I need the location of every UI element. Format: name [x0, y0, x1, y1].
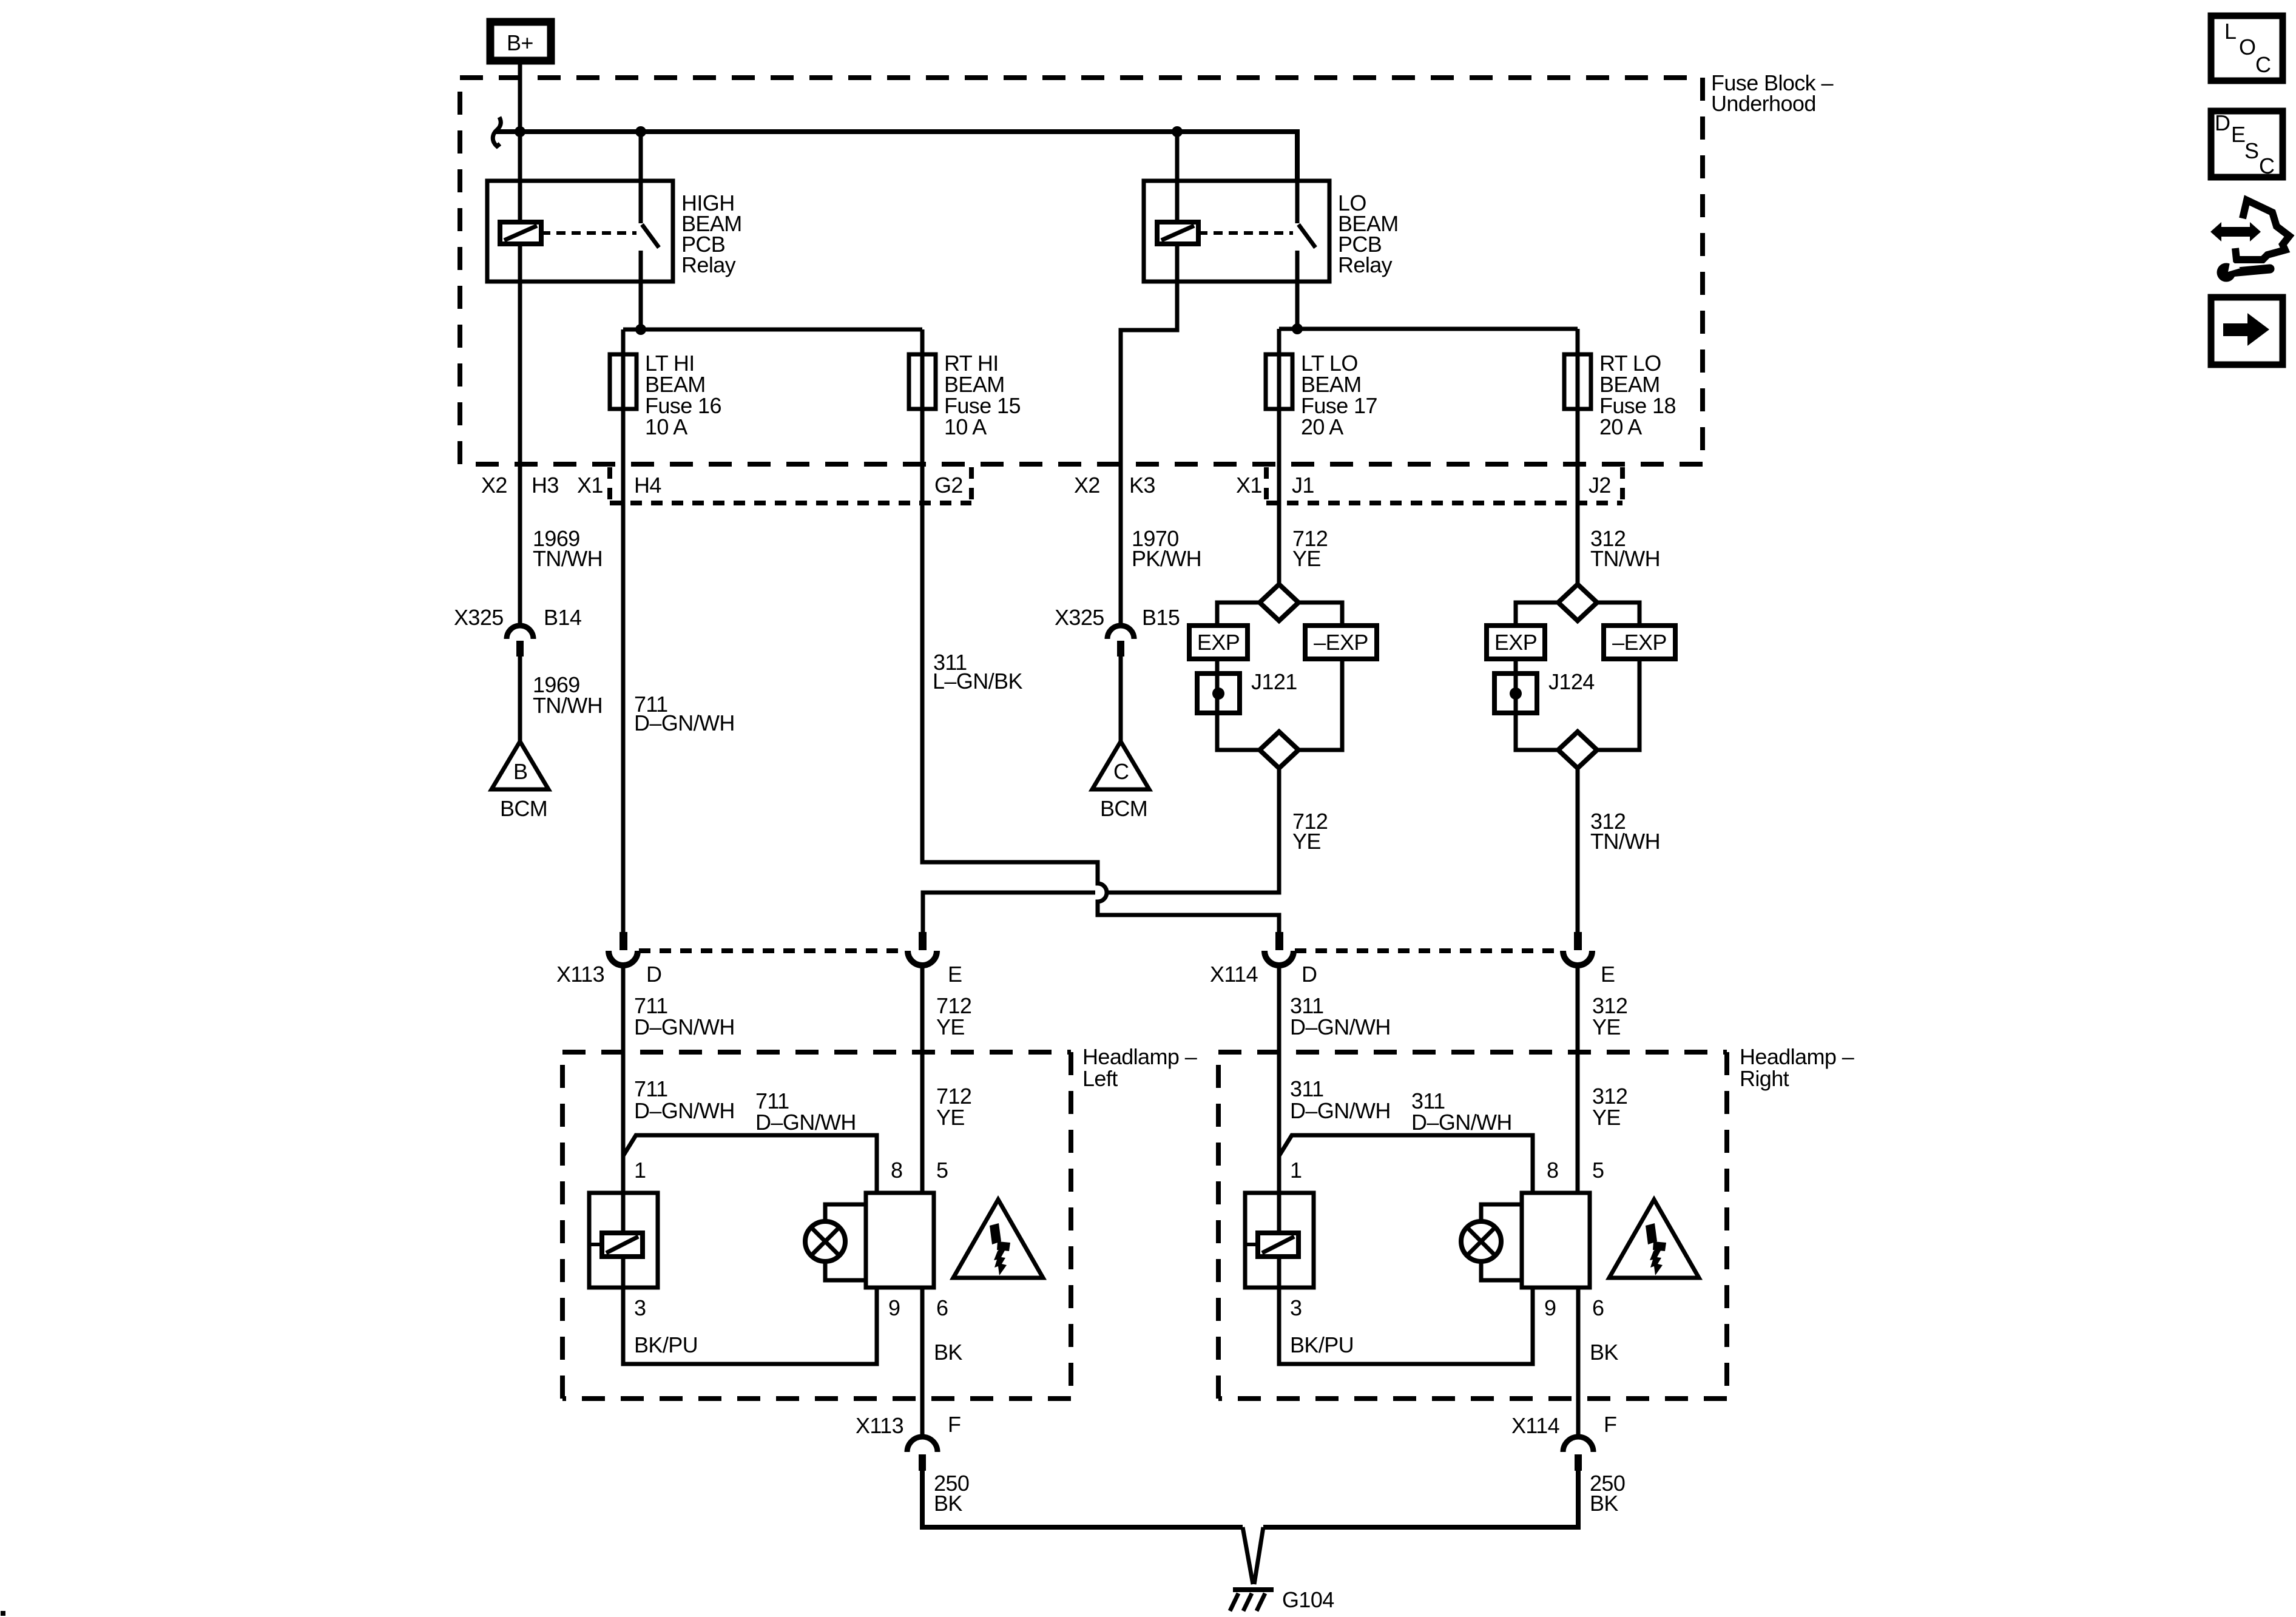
- connector X114 pin F: [1511, 1412, 1616, 1471]
- svg-text:10 A: 10 A: [645, 414, 687, 439]
- node triangle C BCM: [1092, 741, 1149, 821]
- svg-text:TN/WH: TN/WH: [1590, 829, 1660, 854]
- wire 1969 high beam relay coil return to X325: [518, 282, 522, 626]
- warning triangle high voltage left: [953, 1200, 1043, 1278]
- svg-text:D–GN/WH: D–GN/WH: [1290, 1098, 1391, 1123]
- label Headlamp - Right: [1740, 1044, 1854, 1091]
- icon next page arrow box: [2211, 297, 2283, 365]
- svg-text:5: 5: [1592, 1158, 1604, 1183]
- svg-text:D–GN/WH: D–GN/WH: [634, 1098, 735, 1123]
- fuse LT HI BEAM Fuse 16: [610, 354, 636, 409]
- svg-text:20 A: 20 A: [1599, 414, 1642, 439]
- svg-text:YE: YE: [1592, 1014, 1621, 1039]
- node junction dot at high beam relay switch / bus: [635, 126, 646, 137]
- relay coil headlamp left: [591, 1193, 643, 1288]
- svg-text:J121: J121: [1251, 669, 1297, 694]
- lamp module left box: [866, 1193, 934, 1288]
- svg-text:B+: B+: [507, 30, 533, 55]
- fuse RT LO BEAM Fuse 18: [1564, 354, 1591, 409]
- ground G104 symbol: [1230, 1527, 1334, 1612]
- label 312 YE inside headlamp right: [1592, 1084, 1627, 1130]
- icon LOC box: [2211, 16, 2283, 81]
- svg-text:TN/WH: TN/WH: [1590, 546, 1660, 571]
- svg-text:BK: BK: [1590, 1340, 1618, 1365]
- icon DESC box: [2211, 110, 2283, 178]
- label RT LO BEAM Fuse 18 20 A: [1599, 351, 1676, 439]
- svg-text:X113: X113: [556, 962, 604, 987]
- label 712 YE inside headlamp left: [936, 1084, 971, 1130]
- label pin X1 H4: [577, 473, 661, 498]
- svg-text:YE: YE: [1592, 1105, 1621, 1130]
- splice pack J121 diamonds and EXP options: [1217, 584, 1342, 768]
- connector X113 pin D: [556, 932, 661, 987]
- node B+ battery feed: [490, 22, 551, 61]
- connector X325 B15: [1055, 605, 1180, 657]
- label LO BEAM PCB Relay: [1338, 191, 1399, 277]
- svg-text:F: F: [948, 1412, 961, 1437]
- lamp module right box: [1522, 1193, 1590, 1288]
- svg-text:J1: J1: [1292, 473, 1314, 498]
- fuse LT LO BEAM Fuse 17: [1266, 354, 1292, 409]
- node triangle B BCM: [491, 741, 549, 821]
- svg-text:3: 3: [1290, 1295, 1302, 1320]
- svg-text:D–GN/WH: D–GN/WH: [1411, 1110, 1512, 1135]
- svg-text:EXP: EXP: [1197, 630, 1240, 655]
- connector X113 pin F: [856, 1412, 961, 1471]
- label wire 1969 TN/WH upper: [533, 526, 603, 571]
- svg-text:D: D: [2215, 110, 2230, 135]
- wire high beam relay switch feed: [639, 132, 643, 181]
- svg-text:E: E: [1601, 962, 1615, 987]
- svg-text:C: C: [1113, 759, 1129, 784]
- svg-text:–EXP: –EXP: [1612, 630, 1667, 655]
- label 711 D-GN/WH jumper left: [755, 1089, 856, 1135]
- svg-text:Right: Right: [1740, 1066, 1789, 1091]
- svg-text:Headlamp –: Headlamp –: [1082, 1044, 1197, 1069]
- label 711 D-GN/WH inside headlamp left: [634, 1076, 735, 1123]
- svg-text:X113: X113: [856, 1413, 903, 1438]
- svg-text:YE: YE: [1292, 829, 1321, 854]
- svg-text:K3: K3: [1129, 473, 1155, 498]
- label 711 D-GN/WH below X113 D: [634, 993, 735, 1039]
- bulb symbol left: [805, 1204, 866, 1280]
- svg-text:J2: J2: [1589, 473, 1611, 498]
- label wire 711 D-GN/WH mid: [634, 692, 735, 735]
- wire 1969 to BCM: [518, 657, 522, 743]
- svg-text:X2: X2: [481, 473, 507, 498]
- svg-text:F: F: [1604, 1412, 1616, 1437]
- svg-text:B15: B15: [1142, 605, 1180, 630]
- svg-text:BK/PU: BK/PU: [1290, 1332, 1354, 1357]
- splice J121 symbol: [1197, 669, 1297, 713]
- svg-text:6: 6: [1592, 1295, 1604, 1320]
- label -EXP box J124: [1604, 626, 1675, 659]
- svg-text:BK: BK: [934, 1491, 962, 1516]
- svg-text:X2: X2: [1074, 473, 1100, 498]
- relay switch lo beam: [1297, 181, 1315, 282]
- relay headlamp left box: [589, 1193, 658, 1288]
- wire jumper 311 to bulb pin 8 right: [1279, 1135, 1533, 1193]
- svg-text:711: 711: [634, 1076, 668, 1101]
- svg-text:EXP: EXP: [1494, 630, 1537, 655]
- svg-text:G2: G2: [934, 473, 963, 498]
- label 712 YE below X113 E: [936, 993, 971, 1039]
- connector X113 dashed line: [639, 948, 907, 953]
- wire jumper 711 to bulb pin 8 left: [623, 1135, 877, 1193]
- svg-text:TN/WH: TN/WH: [533, 546, 603, 571]
- svg-text:X1: X1: [1236, 473, 1262, 498]
- wire RT LO beam circuit 312 vertical: [1576, 329, 1580, 583]
- svg-text:1: 1: [634, 1158, 646, 1183]
- label pin X2 K3: [1074, 473, 1155, 498]
- svg-text:BK: BK: [934, 1340, 962, 1365]
- relay coil headlamp right: [1247, 1193, 1298, 1288]
- headlamp left dashed outline: [562, 1052, 1071, 1399]
- svg-text:C: C: [2259, 154, 2274, 178]
- svg-text:S: S: [2244, 138, 2258, 163]
- label pin X1 J1: [1236, 473, 1314, 498]
- node junction dot high beam fuse feed: [635, 324, 646, 335]
- svg-text:D–GN/WH: D–GN/WH: [634, 711, 735, 735]
- label Fuse Block - Underhood: [1711, 70, 1833, 116]
- wire LT LO beam circuit 712 vertical: [1277, 329, 1281, 583]
- svg-text:E: E: [2231, 122, 2245, 147]
- wire BK bulb pin 6 down right: [1576, 1288, 1581, 1437]
- label EXP box J124: [1487, 626, 1545, 659]
- wire 250 BK left to ground bus: [922, 1471, 1243, 1527]
- svg-text:D: D: [1302, 962, 1317, 987]
- wire BK bulb pin 6 down left: [920, 1288, 925, 1437]
- svg-text:J124: J124: [1548, 669, 1595, 694]
- svg-text:YE: YE: [936, 1105, 965, 1130]
- node junction dot lo beam fuse feed: [1292, 323, 1303, 334]
- connector X114 pin D: [1210, 932, 1317, 987]
- label 311 D-GN/WH jumper right: [1411, 1089, 1512, 1135]
- label 311 D-GN/WH below X114 D: [1290, 993, 1391, 1039]
- wire B+ feed into fuse block: [518, 61, 522, 181]
- wire lo beam relay coil feed: [1175, 132, 1180, 181]
- relay linkage dashed high beam: [541, 231, 636, 235]
- headlamp right dashed outline: [1218, 1052, 1727, 1399]
- icon wiring repair reference: [2210, 200, 2289, 282]
- relay linkage dashed lo beam: [1198, 231, 1293, 235]
- svg-text:10 A: 10 A: [944, 414, 987, 439]
- svg-text:O: O: [2239, 35, 2255, 59]
- label wire 1970 PK/WH: [1132, 526, 1201, 571]
- svg-text:H4: H4: [634, 473, 661, 498]
- svg-text:9: 9: [1544, 1295, 1556, 1320]
- svg-text:Relay: Relay: [1338, 252, 1393, 277]
- connector X114 pin E: [1563, 932, 1615, 987]
- svg-text:D–GN/WH: D–GN/WH: [755, 1110, 856, 1135]
- fuse RT HI BEAM Fuse 15: [909, 354, 936, 409]
- splice J124 symbol: [1494, 669, 1595, 713]
- svg-text:8: 8: [891, 1158, 902, 1183]
- relay coil high beam: [500, 181, 541, 282]
- svg-text:L: L: [2224, 19, 2236, 44]
- svg-text:PK/WH: PK/WH: [1132, 546, 1201, 571]
- svg-text:G104: G104: [1282, 1587, 1334, 1612]
- wire 311 into headlamp right: [1277, 965, 1281, 1193]
- svg-text:BCM: BCM: [1100, 796, 1147, 821]
- svg-text:D–GN/WH: D–GN/WH: [1290, 1014, 1391, 1039]
- relay coil lo beam: [1157, 181, 1198, 282]
- svg-text:E: E: [948, 962, 962, 987]
- warning triangle high voltage right: [1609, 1200, 1699, 1278]
- label wire 250 BK left: [934, 1471, 969, 1516]
- svg-text:X1: X1: [577, 473, 603, 498]
- node junction dot at B+ / bus: [515, 126, 525, 137]
- connector X1 bracket right (J1-J2): [1266, 467, 1622, 503]
- svg-text:B: B: [513, 759, 527, 784]
- label wire 312 TN/WH lower: [1590, 809, 1660, 854]
- bulb symbol right: [1461, 1204, 1522, 1280]
- label wire 250 BK right: [1590, 1471, 1625, 1516]
- label 312 YE below X114 E: [1592, 993, 1627, 1039]
- label Headlamp - Left: [1082, 1044, 1197, 1091]
- relay headlamp right box: [1245, 1193, 1314, 1288]
- label LT LO BEAM Fuse 17 20 A: [1301, 351, 1377, 439]
- label wire 712 YE upper: [1292, 526, 1328, 571]
- label wire 712 YE lower: [1292, 809, 1328, 854]
- svg-text:L–GN/BK: L–GN/BK: [933, 669, 1022, 694]
- svg-text:6: 6: [936, 1295, 948, 1320]
- svg-text:Underhood: Underhood: [1711, 91, 1816, 116]
- svg-text:H3: H3: [532, 473, 559, 498]
- wire LT HI beam circuit 711 vertical: [621, 329, 626, 932]
- svg-text:8: 8: [1547, 1158, 1558, 1183]
- wire 712 into headlamp left: [920, 965, 925, 1193]
- splice pack J124 diamonds and EXP options: [1516, 584, 1639, 768]
- connector X114 dashed line: [1295, 948, 1562, 953]
- label 311 D-GN/WH inside headlamp right: [1290, 1076, 1391, 1123]
- connector X325 B14: [454, 605, 581, 657]
- wire main bus: [495, 132, 1297, 181]
- connector X1 bracket left (H4-G2): [610, 467, 971, 503]
- svg-text:Relay: Relay: [681, 252, 736, 277]
- wire BK/PU relay to bulb pin 9 right: [1279, 1288, 1533, 1364]
- label RT HI BEAM Fuse 15 10 A: [944, 351, 1021, 439]
- wire bus continuation curl: [493, 117, 501, 146]
- svg-text:9: 9: [888, 1295, 900, 1320]
- svg-text:20 A: 20 A: [1301, 414, 1343, 439]
- wire 712 from J121 to X113 E with crossover: [923, 769, 1279, 932]
- svg-text:TN/WH: TN/WH: [533, 693, 603, 718]
- label pin X2 H3: [481, 473, 559, 498]
- svg-text:D–GN/WH: D–GN/WH: [634, 1014, 735, 1039]
- label wire 312 TN/WH upper: [1590, 526, 1660, 571]
- relay LO BEAM PCB Relay box: [1144, 181, 1329, 282]
- node junction dot at lo beam relay coil / bus: [1172, 126, 1183, 137]
- label EXP box J121: [1189, 626, 1248, 659]
- svg-text:Headlamp –: Headlamp –: [1740, 1044, 1854, 1069]
- svg-text:X325: X325: [1055, 605, 1104, 630]
- svg-text:–EXP: –EXP: [1314, 630, 1368, 655]
- svg-text:3: 3: [634, 1295, 646, 1320]
- svg-text:YE: YE: [936, 1014, 965, 1039]
- svg-text:1: 1: [1290, 1158, 1302, 1183]
- svg-text:311: 311: [1290, 1076, 1324, 1101]
- svg-text:5: 5: [936, 1158, 948, 1183]
- decorative period bottom-left: [1, 1611, 5, 1616]
- wire BK/PU relay to bulb pin 9 left: [623, 1288, 877, 1364]
- wire RT HI beam circuit 311 vertical: [922, 329, 1279, 932]
- relay switch high beam: [641, 181, 659, 282]
- label wire 311 L-GN/BK: [933, 650, 1022, 694]
- wire 711 into headlamp left: [621, 965, 626, 1193]
- svg-text:Left: Left: [1082, 1066, 1118, 1091]
- fuse block underhood dashed outline: [460, 78, 1703, 464]
- svg-text:BK: BK: [1590, 1491, 1618, 1516]
- svg-text:X114: X114: [1511, 1413, 1559, 1438]
- wire 312 into headlamp right: [1576, 965, 1580, 1193]
- svg-text:X114: X114: [1210, 962, 1258, 987]
- wire 250 BK right to ground bus: [1263, 1471, 1578, 1527]
- label HIGH BEAM PCB Relay: [681, 191, 742, 277]
- wire lo beam relay coil return to K3: [1121, 282, 1177, 626]
- wire high beam relay output to fuses: [623, 282, 922, 329]
- svg-text:BK/PU: BK/PU: [634, 1332, 698, 1357]
- svg-text:YE: YE: [1292, 546, 1321, 571]
- label wire 1969 TN/WH lower: [533, 672, 603, 718]
- svg-text:C: C: [2255, 52, 2271, 77]
- svg-text:BCM: BCM: [500, 796, 547, 821]
- relay HIGH BEAM PCB Relay box: [487, 181, 673, 282]
- wire lo beam relay output to fuses: [1279, 282, 1578, 329]
- svg-text:X325: X325: [454, 605, 504, 630]
- wire 312 from J124 to X114 E: [1576, 769, 1580, 932]
- svg-text:D: D: [646, 962, 661, 987]
- connector X113 pin E: [908, 932, 962, 987]
- svg-text:B14: B14: [544, 605, 581, 630]
- wire 1970 to BCM: [1119, 657, 1123, 743]
- label LT HI BEAM Fuse 16 10 A: [645, 351, 721, 439]
- label -EXP box J121: [1305, 626, 1377, 659]
